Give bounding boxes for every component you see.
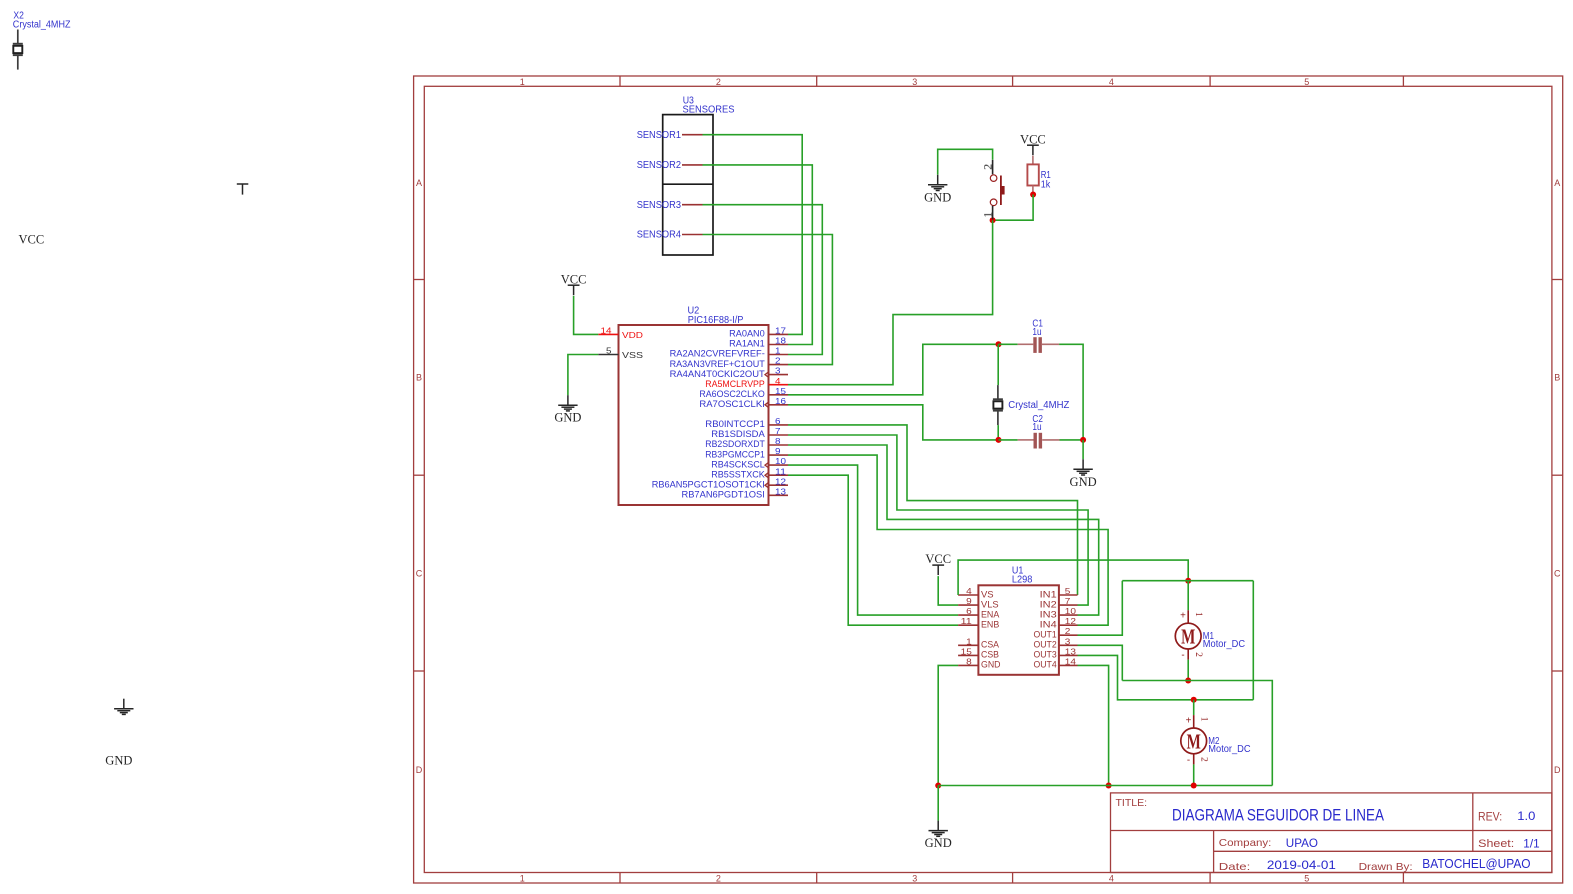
svg-text:GND: GND xyxy=(105,754,132,768)
wire osc gnd node down xyxy=(1082,440,1084,459)
svg-text:2: 2 xyxy=(1199,757,1209,762)
wire SENSOR2 to RA1 xyxy=(703,165,813,345)
PIC U2 body xyxy=(619,325,769,505)
svg-text:VCC: VCC xyxy=(19,232,45,246)
wire M2 plus node to motor xyxy=(1193,700,1195,715)
svg-text:3: 3 xyxy=(775,366,781,376)
PIC pin 1 RA2AN2CVREFVREF- xyxy=(769,354,789,356)
wire RA7 to crystal bottom node xyxy=(788,405,999,440)
svg-text:GND: GND xyxy=(924,190,951,204)
svg-text:VSS: VSS xyxy=(622,351,644,360)
L298 pin 7 IN2 xyxy=(1059,604,1078,606)
wire SENSOR3 to RA2 xyxy=(703,205,823,355)
wire OUT2 to M1 minus xyxy=(1078,645,1123,680)
svg-text:11: 11 xyxy=(775,466,786,476)
svg-text:RB2SDORXDT: RB2SDORXDT xyxy=(705,439,765,449)
PIC pin 18 RA1AN1 xyxy=(769,344,789,346)
svg-text:CSA: CSA xyxy=(981,640,1000,650)
svg-text:C: C xyxy=(1554,568,1561,578)
wire button pin2 to ground xyxy=(938,149,993,175)
svg-text:RB7AN6PGDT1OSI: RB7AN6PGDT1OSI xyxy=(682,490,765,500)
svg-text:4: 4 xyxy=(1109,77,1114,87)
svg-text:RA0AN0: RA0AN0 xyxy=(729,329,765,339)
svg-text:GND: GND xyxy=(925,836,952,850)
wire VSS to ground xyxy=(568,355,598,396)
svg-text:UPAO: UPAO xyxy=(1286,836,1318,850)
svg-text:9: 9 xyxy=(775,446,781,456)
svg-text:1u: 1u xyxy=(1032,422,1041,433)
wire RB2 to IN3 xyxy=(788,445,1099,615)
wire VCC to VLS xyxy=(938,576,958,605)
svg-text:1: 1 xyxy=(1193,612,1203,617)
svg-text:5: 5 xyxy=(1065,586,1071,596)
svg-text:Motor_DC: Motor_DC xyxy=(1203,639,1245,650)
ground symbol below PIC VSS xyxy=(567,395,569,405)
svg-text:VCC: VCC xyxy=(561,272,587,286)
wire SENSOR4 to RA3 xyxy=(703,235,833,365)
svg-text:VCC: VCC xyxy=(925,552,951,566)
wire M1 motor to minus node xyxy=(1187,660,1189,681)
wire C1 to gnd rail right xyxy=(1059,344,1083,440)
junction crystal bottom node xyxy=(996,437,1002,443)
svg-text:VS: VS xyxy=(981,589,994,599)
svg-text:D: D xyxy=(1554,765,1561,775)
unconnected VCC symbol T xyxy=(237,183,249,185)
PIC pin 8 RB2SDORXDT xyxy=(769,444,789,446)
svg-text:Crystal_4MHZ: Crystal_4MHZ xyxy=(13,20,71,31)
svg-text:GND: GND xyxy=(1070,475,1097,489)
svg-text:SENSOR1: SENSOR1 xyxy=(637,130,681,141)
wire OUT1 to M1 plus xyxy=(1078,581,1123,636)
svg-text:5: 5 xyxy=(1304,77,1309,87)
connector U3 pin SENSOR4 xyxy=(682,234,703,236)
svg-text:SENSORES: SENSORES xyxy=(683,104,735,115)
svg-text:RB6AN5PGCT1OSOT1CKI: RB6AN5PGCT1OSOT1CKI xyxy=(652,479,765,489)
PIC pin 11 RB5SSTXCK xyxy=(769,474,789,476)
L298 U1 body xyxy=(978,585,1059,675)
svg-text:2019-04-01: 2019-04-01 xyxy=(1267,858,1336,872)
svg-text:8: 8 xyxy=(966,656,972,666)
PIC pin 13 RB7AN6PGDT1OSI xyxy=(769,494,789,496)
svg-text:VCC: VCC xyxy=(1020,132,1046,146)
wire RB4 to ENA xyxy=(788,465,958,615)
svg-text:1u: 1u xyxy=(1032,327,1041,338)
connector U3 pin SENSOR1 xyxy=(682,134,703,136)
crystal X2 xyxy=(17,30,19,44)
motor M2 xyxy=(1193,715,1195,728)
svg-text:14: 14 xyxy=(601,325,612,335)
svg-text:BATOCHEL@UPAO: BATOCHEL@UPAO xyxy=(1422,857,1531,871)
L298 pin 10 IN3 xyxy=(1059,614,1078,616)
svg-text:IN1: IN1 xyxy=(1040,589,1057,599)
wire VS up and to M1 top node xyxy=(958,560,1188,595)
L298 pin 1 CSA xyxy=(958,644,978,646)
svg-text:12: 12 xyxy=(1065,616,1076,626)
svg-text:VLS: VLS xyxy=(981,599,999,609)
resistor R1 top lead xyxy=(1032,156,1034,165)
L298 pin 4 VS xyxy=(958,594,978,596)
svg-text:M: M xyxy=(1187,730,1201,754)
junction OUT4 on ground rail xyxy=(1106,783,1112,789)
ground symbol left of button xyxy=(937,175,939,185)
wire M1 plus node to motor xyxy=(1187,581,1189,611)
PIC pin 2 RA3AN3VREF+C1OUT xyxy=(769,364,789,366)
svg-text:Date:: Date: xyxy=(1219,861,1251,873)
wire crystal bottom lead to node xyxy=(997,425,999,440)
svg-text:18: 18 xyxy=(775,336,786,346)
resistor R1 bottom lead xyxy=(1032,186,1034,195)
svg-text:Crystal_4MHZ: Crystal_4MHZ xyxy=(1008,400,1069,411)
svg-text:IN2: IN2 xyxy=(1040,599,1057,609)
title block divider under title row xyxy=(1111,830,1552,832)
svg-text:CSB: CSB xyxy=(981,650,999,660)
svg-text:2: 2 xyxy=(716,874,721,884)
PIC pin 16 RA7OSC1CLKI xyxy=(769,404,789,406)
svg-text:4: 4 xyxy=(775,376,781,386)
svg-text:6: 6 xyxy=(966,606,972,616)
svg-text:7: 7 xyxy=(1065,596,1071,606)
wire M1 bottom edge to ground rail xyxy=(1122,681,1272,786)
svg-text:A: A xyxy=(1554,178,1560,188)
svg-text:8: 8 xyxy=(775,436,781,446)
junction M2 on ground rail xyxy=(1191,783,1197,789)
svg-text:4: 4 xyxy=(966,586,972,596)
PIC pin 9 RB3PGMCCP1 xyxy=(769,454,789,456)
svg-text:Sheet:: Sheet: xyxy=(1478,838,1514,850)
L298 pin 2 OUT1 xyxy=(1059,634,1078,636)
svg-text:OUT3: OUT3 xyxy=(1034,650,1057,660)
svg-text:+: + xyxy=(1180,611,1186,622)
svg-text:Company:: Company: xyxy=(1219,837,1272,849)
L298 pin 15 CSB xyxy=(958,654,978,656)
svg-text:1: 1 xyxy=(775,346,781,356)
junction M1 minus node xyxy=(1185,678,1191,684)
PIC pin 15 RA6OSC2CLKO xyxy=(769,394,789,396)
svg-text:1: 1 xyxy=(966,636,972,646)
svg-text:RA3AN3VREF+C1OUT: RA3AN3VREF+C1OUT xyxy=(670,359,766,369)
svg-text:+: + xyxy=(1186,715,1192,726)
L298 pin 12 IN4 xyxy=(1059,624,1078,626)
L298 pin 3 OUT2 xyxy=(1059,644,1078,646)
title block outline xyxy=(1111,793,1552,873)
L298 pin 13 OUT3 xyxy=(1059,654,1078,656)
svg-text:RA5MCLRVPP: RA5MCLRVPP xyxy=(705,379,765,389)
PIC pin 3 RA4AN4T0CKIC2OUT xyxy=(769,374,789,376)
title block vertical divider rev/sheet xyxy=(1472,793,1474,851)
wire C2 right to gnd junction xyxy=(1060,439,1084,441)
svg-text:11: 11 xyxy=(961,616,972,626)
frame column ticks top xyxy=(619,76,621,86)
stray ground symbol xyxy=(123,699,125,709)
L298 pin 14 OUT4 xyxy=(1059,664,1078,666)
svg-text:IN4: IN4 xyxy=(1040,620,1057,630)
svg-text:9: 9 xyxy=(966,596,972,606)
svg-text:B: B xyxy=(1554,373,1560,383)
svg-text:RB5SSTXCK: RB5SSTXCK xyxy=(711,469,765,479)
L298 pin 5 IN1 xyxy=(1059,594,1078,596)
wire ground rail down to symbol xyxy=(937,786,939,821)
svg-text:1/1: 1/1 xyxy=(1523,837,1540,851)
svg-text:3: 3 xyxy=(1065,636,1071,646)
PIC pin 6 RB0INTCCP1 xyxy=(769,424,789,426)
svg-text:-: - xyxy=(1181,650,1184,661)
svg-text:3: 3 xyxy=(912,77,917,87)
svg-text:15: 15 xyxy=(775,386,786,396)
drawing frame outer border xyxy=(414,76,1563,883)
svg-text:RA6OSC2CLKO: RA6OSC2CLKO xyxy=(699,389,765,399)
svg-text:1: 1 xyxy=(1199,717,1209,722)
wire RB0 to IN1 xyxy=(788,425,1078,595)
svg-text:OUT2: OUT2 xyxy=(1034,640,1057,650)
svg-text:3: 3 xyxy=(912,874,917,884)
svg-text:TITLE:: TITLE: xyxy=(1116,798,1148,809)
svg-text:13: 13 xyxy=(1065,646,1076,656)
PIC pin 7 RB1SDISDA xyxy=(769,434,789,436)
svg-text:1: 1 xyxy=(520,77,525,87)
svg-text:5: 5 xyxy=(606,345,612,355)
svg-text:REV:: REV: xyxy=(1478,812,1502,824)
L298 pin 11 ENB xyxy=(958,624,978,626)
svg-text:SENSOR2: SENSOR2 xyxy=(637,160,681,171)
wire VCC to VDD xyxy=(574,296,599,335)
junction M2 plus node xyxy=(1191,697,1197,703)
svg-text:5: 5 xyxy=(1304,874,1309,884)
connector U3 pin SENSOR3 xyxy=(682,204,703,206)
L298 pin 6 ENA xyxy=(958,614,978,616)
ground symbol below L298 xyxy=(937,821,939,831)
svg-text:2: 2 xyxy=(1193,652,1203,657)
junction ground rail at L298 xyxy=(935,783,941,789)
junction button pin1 node xyxy=(990,217,996,223)
push button S1 contacts and plunger xyxy=(992,160,994,175)
svg-text:Drawn By:: Drawn By: xyxy=(1359,861,1413,873)
wire RB5 to ENB xyxy=(788,475,958,625)
svg-text:RB4SCKSCL: RB4SCKSCL xyxy=(711,459,765,469)
svg-text:GND: GND xyxy=(981,660,1001,670)
PIC pin 17 RA0AN0 xyxy=(769,333,789,335)
svg-text:L298: L298 xyxy=(1012,574,1033,585)
svg-text:OUT1: OUT1 xyxy=(1034,630,1057,640)
svg-text:RB1SDISDA: RB1SDISDA xyxy=(711,429,765,439)
svg-text:1.0: 1.0 xyxy=(1517,809,1535,823)
junction crystal top node xyxy=(996,341,1002,347)
svg-text:ENB: ENB xyxy=(981,620,999,630)
svg-text:6: 6 xyxy=(775,416,781,426)
svg-text:2: 2 xyxy=(716,77,721,87)
svg-text:RB3PGMCCP1: RB3PGMCCP1 xyxy=(705,449,765,459)
junction M1 plus node xyxy=(1185,578,1191,584)
wire M1 top node down to M2 top edge xyxy=(1252,581,1254,700)
svg-text:RB0INTCCP1: RB0INTCCP1 xyxy=(705,419,765,429)
drawing frame inner border xyxy=(424,86,1552,872)
svg-text:D: D xyxy=(416,765,423,775)
svg-text:RA4AN4T0CKIC2OUT: RA4AN4T0CKIC2OUT xyxy=(670,369,766,379)
capacitor C1 xyxy=(1018,343,1034,345)
svg-text:16: 16 xyxy=(775,396,786,406)
title block vertical divider left of company xyxy=(1213,831,1215,873)
wire crystal top lead from node xyxy=(997,344,999,385)
svg-text:SENSOR4: SENSOR4 xyxy=(637,230,682,241)
svg-text:12: 12 xyxy=(775,476,786,486)
svg-text:15: 15 xyxy=(961,646,972,656)
motor M1 xyxy=(1187,610,1189,623)
svg-text:10: 10 xyxy=(775,456,786,466)
svg-text:10: 10 xyxy=(1065,606,1076,616)
wire RB3 to IN4 xyxy=(788,455,1108,625)
wire button node to PIC RA5 MCLR xyxy=(788,220,993,385)
svg-text:SENSOR3: SENSOR3 xyxy=(637,200,682,211)
svg-text:ENA: ENA xyxy=(981,609,1000,619)
wire OUT3 to M2 top edge xyxy=(1078,655,1254,699)
svg-text:C: C xyxy=(416,568,423,578)
resistor R1 body xyxy=(1027,164,1038,185)
crystal Crystal_4MHZ xyxy=(997,385,999,399)
svg-text:1: 1 xyxy=(520,874,525,884)
svg-text:IN3: IN3 xyxy=(1040,609,1057,619)
svg-text:4: 4 xyxy=(1109,874,1114,884)
PIC pin 12 RB6AN5PGCT1OSOT1CKI xyxy=(769,484,789,486)
frame row ticks right xyxy=(1552,279,1563,281)
svg-text:17: 17 xyxy=(775,326,786,336)
L298 pin 9 VLS xyxy=(958,604,978,606)
connector U3 pin SENSOR2 xyxy=(682,164,703,166)
svg-text:2: 2 xyxy=(981,164,995,170)
svg-text:1: 1 xyxy=(981,212,995,218)
L298 pin 8 GND xyxy=(958,664,978,666)
ground symbol oscillator xyxy=(1082,459,1084,469)
svg-text:RA2AN2CVREFVREF-: RA2AN2CVREFVREF- xyxy=(670,349,765,359)
junction oscillator gnd node xyxy=(1080,437,1086,443)
svg-text:13: 13 xyxy=(775,486,786,496)
svg-text:DIAGRAMA SEGUIDOR DE LINEA: DIAGRAMA SEGUIDOR DE LINEA xyxy=(1172,807,1384,825)
PIC pin 5 VSS xyxy=(598,354,618,356)
svg-text:VDD: VDD xyxy=(622,331,643,340)
svg-text:2: 2 xyxy=(775,356,781,366)
svg-text:7: 7 xyxy=(775,426,781,436)
svg-text:Motor_DC: Motor_DC xyxy=(1208,744,1250,755)
wire R1 to button pin 1 node xyxy=(993,195,1034,221)
frame row ticks left xyxy=(414,279,425,281)
title block divider company/date xyxy=(1214,850,1552,852)
capacitor C2 xyxy=(1018,439,1034,441)
wire L298 GND pin to ground rail xyxy=(938,665,958,785)
wire OUT4 to ground rail xyxy=(1078,665,1109,785)
svg-text:RA1AN1: RA1AN1 xyxy=(729,339,765,349)
svg-text:2: 2 xyxy=(1065,626,1071,636)
svg-text:1k: 1k xyxy=(1041,180,1051,191)
connector U3 divider xyxy=(663,183,713,185)
PIC pin 14 VDD xyxy=(598,333,618,335)
wire SENSOR1 to RA0 xyxy=(703,135,803,335)
wire RB1 to IN2 xyxy=(788,435,1088,605)
svg-text:A: A xyxy=(416,178,422,188)
wire ground rail xyxy=(938,785,1272,787)
PIC pin 4 RA5MCLRVPP xyxy=(769,384,789,386)
svg-text:RA7OSC1CLKI: RA7OSC1CLKI xyxy=(699,399,764,409)
wire top node to C1 xyxy=(999,343,1018,345)
svg-text:B: B xyxy=(416,373,422,383)
svg-text:M: M xyxy=(1181,625,1195,649)
PIC pin 10 RB4SCKSCL xyxy=(769,464,789,466)
svg-text:-: - xyxy=(1187,755,1190,766)
svg-text:GND: GND xyxy=(554,411,581,425)
wire M2 motor to ground rail xyxy=(1193,764,1195,785)
svg-text:14: 14 xyxy=(1065,656,1076,666)
svg-text:OUT4: OUT4 xyxy=(1034,660,1057,670)
wire M1 top edge xyxy=(1122,580,1253,582)
wire RA6 to crystal top node xyxy=(788,344,999,395)
wire bottom node to C2 xyxy=(999,439,1018,441)
connector U3 body xyxy=(663,115,713,255)
frame column ticks bottom xyxy=(619,873,621,884)
junction R1 bottom node xyxy=(1030,192,1036,198)
